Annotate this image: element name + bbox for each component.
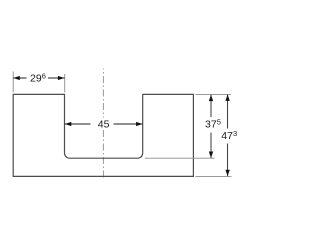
arrow right of 29.6 [58, 76, 64, 80]
dimension 47.3 line [227, 94, 229, 176]
arrow top of 47.3 [225, 95, 229, 101]
label 29^6 [27, 73, 49, 84]
arrow top of 37.5 [209, 95, 213, 101]
arrow left of 29.6 [13, 76, 19, 80]
extension line cutout bottom right [145, 157, 215, 159]
svg-text:45: 45 [98, 119, 110, 131]
arrow left of 45 [65, 122, 71, 126]
countertop outline with U-cutout [13, 94, 193, 176]
dimension 45 line [65, 123, 143, 125]
arrow bottom of 37.5 [209, 152, 213, 158]
extension line left (x=13) [12, 72, 14, 93]
centerline of cutout [102, 69, 104, 180]
label 37^5 [204, 117, 222, 133]
extension line top right [195, 93, 231, 95]
dimension 37.5 line [210, 95, 212, 158]
label 47^3 [220, 129, 238, 144]
arrow right of 45 [136, 122, 142, 126]
label 45 [91, 118, 114, 130]
arrow bottom of 47.3 [225, 170, 229, 176]
extension line bottom right [195, 175, 231, 177]
dimension 29.6 line [13, 77, 64, 79]
extension line at cutout left (x=64.5) [64, 74, 66, 92]
